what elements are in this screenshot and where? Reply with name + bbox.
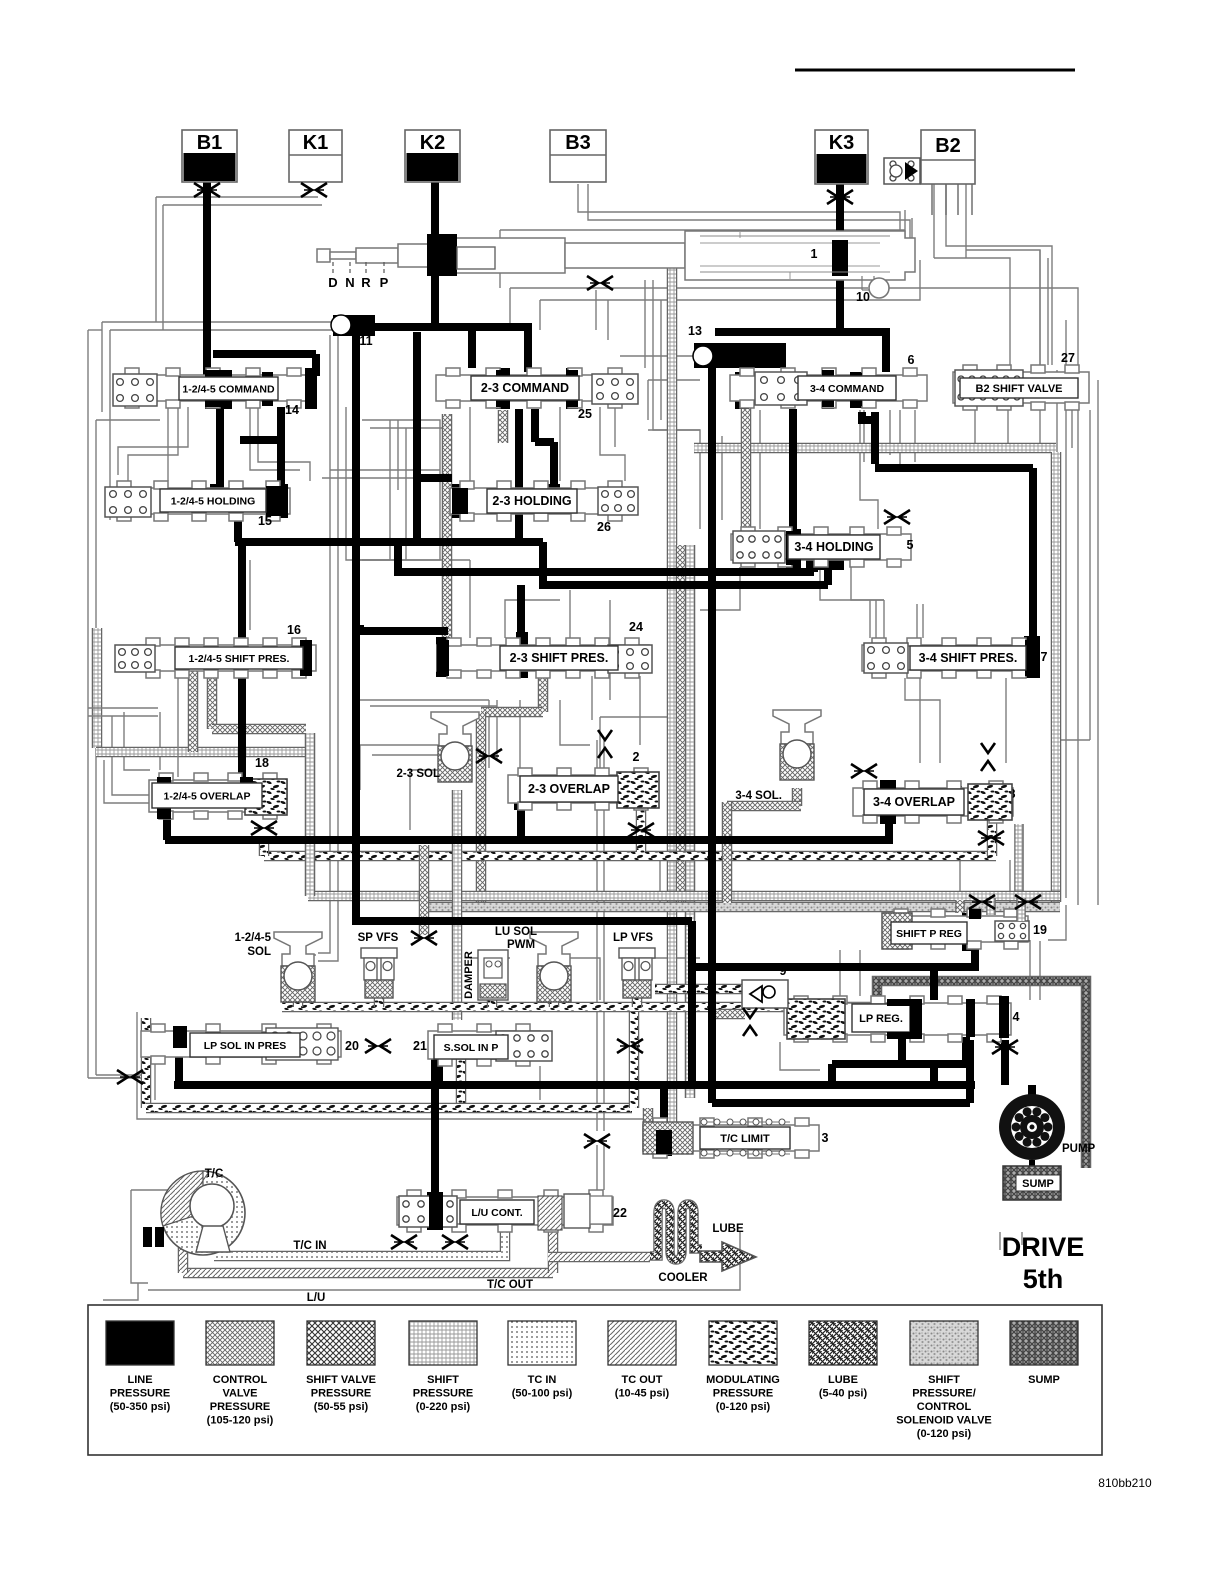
svg-text:13: 13 (688, 324, 702, 338)
svg-text:(10-45 psi): (10-45 psi) (615, 1388, 670, 1400)
conduit dotted vertical x690 (685, 545, 696, 1098)
valve symbol 20 (365, 1039, 391, 1053)
s.sol bottom black stub (431, 1042, 443, 1086)
svg-text:(50-100 psi): (50-100 psi) (512, 1388, 573, 1400)
3-4 command to holding (789, 409, 797, 556)
valve symbol under 2 box (628, 823, 654, 837)
svg-text:PRESSURE/: PRESSURE/ (912, 1388, 976, 1400)
valve symbol below K1 (301, 183, 327, 197)
LP VFS (619, 948, 655, 958)
valve S.SOL IN P (21) (428, 1024, 540, 1066)
line pressure K2 drop (431, 180, 439, 250)
valve symbol under overlap (251, 821, 277, 835)
svg-text:(0-220 psi): (0-220 psi) (416, 1401, 471, 1413)
legend swatch 8 (809, 1321, 877, 1365)
trunk B y572 y585 (394, 542, 402, 572)
svg-text:1-2/4-5 SHIFT PRES.: 1-2/4-5 SHIFT PRES. (189, 653, 290, 665)
command to holding verticals left (216, 407, 224, 484)
legend swatch 9 (910, 1321, 978, 1365)
svg-text:2-3 HOLDING: 2-3 HOLDING (492, 494, 571, 508)
svg-text:COOLER: COOLER (658, 1272, 708, 1284)
svg-text:K1: K1 (303, 132, 329, 154)
svg-text:DRIVE: DRIVE (1002, 1232, 1085, 1262)
torque converter T/C (161, 1171, 245, 1255)
long vertical from node 13 (708, 368, 716, 1103)
center vertical main line (352, 335, 360, 925)
svg-text:R: R (361, 275, 371, 290)
clutch B2 (921, 130, 975, 184)
valve 2-3 OVERLAP (2) (508, 768, 658, 810)
svg-text:3: 3 (822, 1131, 829, 1145)
command valve internal blacks left (213, 350, 316, 358)
svg-text:11: 11 (359, 334, 372, 348)
l/u cont drop (431, 1085, 439, 1226)
conduit enclosure bottom-left (141, 1018, 152, 1108)
svg-text:22: 22 (613, 1206, 627, 1220)
svg-text:SOLENOID VALVE: SOLENOID VALVE (896, 1415, 992, 1427)
svg-text:2-3 SHIFT PRES.: 2-3 SHIFT PRES. (510, 651, 609, 665)
svg-text:N: N (345, 275, 354, 290)
svg-text:K2: K2 (420, 132, 446, 154)
clutch K1 (289, 130, 342, 182)
svg-text:PRESSURE: PRESSURE (311, 1388, 372, 1400)
svg-text:K3: K3 (829, 132, 855, 154)
valve 1-2/4-5 HOLDING (15) (107, 481, 290, 521)
svg-text:25: 25 (578, 407, 592, 421)
line pressure B1 drop (203, 178, 211, 376)
legend swatch 4 (409, 1321, 477, 1365)
conduit crosshatch vertical x677 (676, 545, 687, 906)
conduit 3-4 sol stem (792, 788, 803, 806)
conduit check valve 9 band (655, 984, 786, 995)
conduit left dotted rail (92, 628, 103, 748)
svg-text:4: 4 (1013, 1010, 1020, 1024)
valve 1-2/4-5 SHIFT PRES (16) (136, 638, 316, 678)
conduit T/C OUT band (183, 1268, 553, 1279)
svg-text:L/U: L/U (307, 1292, 326, 1304)
svg-text:SUMP: SUMP (1022, 1178, 1054, 1190)
valve 3-4 HOLDING (5) (731, 527, 911, 567)
conduit sump path LP REG to SUMP (877, 981, 1086, 1168)
bottom trunks (174, 1081, 975, 1089)
svg-text:L/U CONT.: L/U CONT. (471, 1207, 522, 1219)
valve symbol lp vfs bottom (617, 1039, 643, 1053)
conduit stubs above shift p reg (986, 898, 996, 915)
svg-text:PRESSURE: PRESSURE (413, 1388, 474, 1400)
legend box (88, 1305, 1102, 1455)
svg-text:(5-40 psi): (5-40 psi) (819, 1388, 868, 1400)
legend swatch 10 (1010, 1321, 1078, 1365)
svg-text:2-3 SOL: 2-3 SOL (397, 768, 440, 780)
svg-text:SP VFS: SP VFS (358, 932, 399, 944)
svg-text:27: 27 (1061, 351, 1075, 365)
svg-text:LP VFS: LP VFS (613, 932, 653, 944)
svg-text:LUBE: LUBE (712, 1223, 744, 1235)
valve 2-3 COMMAND (25) (436, 368, 632, 408)
pump feed (1028, 1085, 1036, 1096)
valve symbol left of t/c limit (584, 1134, 610, 1148)
svg-text:PWM: PWM (507, 939, 535, 951)
DAMPER (478, 950, 508, 1000)
pump (999, 1094, 1065, 1160)
svg-text:LINE: LINE (127, 1374, 152, 1386)
conduit x746 crosshatch (741, 408, 752, 560)
solenoid LU SOL PWM (530, 932, 578, 966)
valve B2 SHIFT VALVE (27) (953, 365, 1089, 410)
trunk y921 to shift p reg (356, 917, 692, 925)
legend swatch 5 (508, 1321, 576, 1365)
svg-text:VALVE: VALVE (222, 1388, 257, 1400)
svg-text:3-4 SHIFT PRES.: 3-4 SHIFT PRES. (919, 651, 1018, 665)
clutch B1 (182, 130, 237, 182)
svg-text:7: 7 (1041, 650, 1048, 664)
conduit dotted band y896 (308, 891, 1060, 902)
2-3 holding to 2-3 shift pres (356, 627, 448, 635)
conduit dotted band y448 + right vertical (694, 443, 1056, 454)
shift p reg right black (962, 913, 979, 951)
valve symbol below B1 (194, 183, 220, 197)
valve symbols near 19 (969, 895, 995, 909)
valve 1-2/4-5 COMMAND (14) (115, 368, 311, 408)
legend swatch 2 (206, 1321, 274, 1365)
top rule line (795, 69, 1075, 72)
vent above 2-3 overlap (598, 730, 612, 758)
legend swatch 7 (709, 1321, 777, 1365)
svg-text:19: 19 (1033, 923, 1047, 937)
svg-text:S.SOL IN P: S.SOL IN P (444, 1042, 499, 1054)
svg-text:3-4 SOL.: 3-4 SOL. (735, 790, 782, 802)
svg-text:1-2/4-5: 1-2/4-5 (235, 932, 272, 944)
svg-text:1: 1 (811, 247, 818, 261)
legend swatch 6 (608, 1321, 676, 1365)
svg-text:(50-350 psi): (50-350 psi) (110, 1401, 171, 1413)
D N R P labels (332, 262, 334, 274)
sump box (1003, 1166, 1061, 1200)
valve 2-3 SHIFT PRES (24) (437, 638, 649, 678)
legend swatch 3 (307, 1321, 375, 1365)
conduit solenoid supply band (282, 1002, 873, 1013)
valve 3-4 SHIFT PRES (7) (862, 638, 1036, 678)
3-4 command blacks (735, 372, 749, 409)
svg-text:T/C IN: T/C IN (293, 1240, 326, 1252)
svg-text:(0-120 psi): (0-120 psi) (917, 1428, 972, 1440)
lp reg bottom drops (898, 1037, 906, 1064)
valve symbol right of LP REG (992, 1040, 1018, 1054)
svg-text:TC IN: TC IN (528, 1374, 557, 1386)
valve symbol below K3 (827, 190, 853, 204)
valve SHIFT P REG (19) (884, 909, 1028, 949)
2-3 overlap bottom stub (517, 806, 525, 844)
pressure switch left of B2 (884, 158, 920, 184)
svg-text:B2 SHIFT VALVE: B2 SHIFT VALVE (976, 383, 1063, 395)
conduit T/C IN band (214, 1232, 505, 1256)
svg-text:SOL: SOL (247, 946, 271, 958)
svg-text:21: 21 (413, 1039, 427, 1053)
svg-text:LU SOL: LU SOL (495, 926, 537, 938)
svg-text:9: 9 (780, 964, 787, 978)
svg-text:LP REG.: LP REG. (859, 1013, 903, 1025)
solenoid 2-3 SOL (431, 712, 479, 746)
svg-text:PRESSURE: PRESSURE (210, 1401, 271, 1413)
line pressure K3 drop (836, 180, 844, 336)
conduit T/C limit tail (643, 1108, 654, 1125)
conduit dotted center vertical (667, 262, 678, 1125)
svg-text:5: 5 (907, 538, 914, 552)
svg-text:PUMP: PUMP (1062, 1143, 1096, 1155)
lp reg blacks (930, 967, 938, 1000)
valve 3-4 COMMAND (6) (730, 368, 927, 408)
svg-text:16: 16 (287, 623, 301, 637)
svg-text:SUMP: SUMP (1028, 1374, 1060, 1386)
svg-text:T/C OUT: T/C OUT (487, 1279, 533, 1291)
svg-text:MODULATING: MODULATING (706, 1374, 780, 1386)
svg-text:SHIFT VALVE: SHIFT VALVE (306, 1374, 376, 1386)
svg-text:3-4 HOLDING: 3-4 HOLDING (794, 540, 873, 554)
t/c limit drop (660, 1085, 668, 1134)
conduit 2-3 sol stem (452, 790, 463, 1020)
trunk y840 (165, 836, 893, 844)
svg-text:1-2/4-5 OVERLAP: 1-2/4-5 OVERLAP (164, 791, 251, 803)
node 11 junction (352, 323, 532, 331)
valve symbol left of 3-4 overlap (851, 764, 877, 778)
svg-text:T/C LIMIT: T/C LIMIT (720, 1133, 770, 1145)
3-4 right trunk down to 3-4 shift pres (871, 412, 879, 464)
svg-text:CONTROL: CONTROL (917, 1401, 972, 1413)
manual valve spool 1 (317, 231, 915, 280)
node 13 junction (715, 328, 890, 336)
svg-text:B3: B3 (565, 132, 591, 154)
cooler serpentine coil (650, 1204, 702, 1260)
valve LP SOL IN PRES (20) (141, 1024, 341, 1064)
2-3 shift pres left feed (356, 625, 364, 631)
vent above 3-4 overlap (981, 743, 995, 771)
3-4 overlap right black small (950, 786, 962, 816)
svg-text:(0-120 psi): (0-120 psi) (716, 1401, 771, 1413)
svg-text:B1: B1 (197, 132, 223, 154)
solenoid 3-4 SOL (773, 710, 821, 744)
svg-text:D: D (328, 275, 337, 290)
svg-text:14: 14 (285, 403, 299, 417)
conduit speckle band y906 (424, 902, 1060, 913)
svg-text:TC OUT: TC OUT (622, 1374, 663, 1386)
svg-text:6: 6 (908, 353, 915, 367)
svg-text:PRESSURE: PRESSURE (713, 1388, 774, 1400)
2-3 command blacks (496, 368, 510, 409)
solenoid 1-2/4-5 SOL (274, 932, 322, 966)
svg-text:P: P (380, 275, 389, 290)
valve 2-3 HOLDING (26) (450, 481, 632, 521)
lube arrow (700, 1242, 756, 1271)
clutch K3 (815, 130, 868, 184)
svg-text:15: 15 (258, 514, 272, 528)
valve symbol right of 2-3 holding (884, 510, 910, 524)
svg-text:2: 2 (633, 750, 640, 764)
svg-text:5th: 5th (1023, 1264, 1064, 1294)
trunk A y542 (234, 516, 242, 542)
vertical to 1-2/4-5 overlap (238, 542, 246, 780)
svg-text:PRESSURE: PRESSURE (110, 1388, 171, 1400)
svg-text:DAMPER: DAMPER (463, 951, 475, 999)
valve symbol under spool (587, 276, 613, 290)
SP VFS (361, 948, 397, 958)
wire gray network (156, 196, 318, 198)
svg-text:(50-55 psi): (50-55 psi) (314, 1401, 369, 1413)
wire gray extra density (644, 280, 646, 368)
svg-text:(105-120 psi): (105-120 psi) (207, 1415, 274, 1427)
clutch K2 (405, 130, 460, 182)
conduit sp vfs feed (419, 845, 430, 935)
svg-text:SHIFT: SHIFT (928, 1374, 960, 1386)
svg-text:LUBE: LUBE (828, 1374, 858, 1386)
valve symbol left edge (117, 1070, 143, 1084)
svg-text:3-4 OVERLAP: 3-4 OVERLAP (873, 795, 955, 809)
valve symbol near sp vfs (411, 931, 437, 945)
valve 1-2/4-5 OVERLAP (18) (149, 773, 287, 819)
svg-text:24: 24 (629, 620, 643, 634)
svg-text:CONTROL: CONTROL (213, 1374, 268, 1386)
svg-text:2-3 OVERLAP: 2-3 OVERLAP (528, 782, 610, 796)
check valve 9 (742, 980, 788, 1008)
legend swatch 1 (106, 1321, 174, 1365)
conduit crosshatch vertical x447 (498, 410, 509, 443)
clutch B3 (550, 130, 606, 182)
valve 3-4 OVERLAP (8) (853, 781, 1013, 823)
svg-text:SHIFT: SHIFT (427, 1374, 459, 1386)
svg-text:LP SOL IN PRES: LP SOL IN PRES (204, 1040, 286, 1052)
svg-text:SHIFT P REG: SHIFT P REG (896, 928, 962, 940)
svg-text:1-2/4-5 COMMAND: 1-2/4-5 COMMAND (182, 384, 275, 396)
valve symbol under 3-4 overlap right (978, 831, 1004, 845)
node 10 (869, 278, 889, 298)
svg-text:1-2/4-5 HOLDING: 1-2/4-5 HOLDING (171, 496, 256, 508)
valve LP REG (4) (784, 996, 1011, 1042)
valve symbol left of 2-3 overlap (476, 749, 502, 763)
svg-text:20: 20 (345, 1039, 359, 1053)
svg-text:26: 26 (597, 520, 611, 534)
svg-text:3-4 COMMAND: 3-4 COMMAND (810, 383, 885, 395)
svg-text:2-3 COMMAND: 2-3 COMMAND (481, 381, 569, 395)
svg-text:18: 18 (255, 756, 269, 770)
valve T/C LIMIT (3) (643, 1118, 819, 1158)
svg-text:B2: B2 (935, 135, 961, 157)
valve symbols under l/u cont (391, 1235, 417, 1249)
svg-text:810bb210: 810bb210 (1098, 1476, 1152, 1490)
svg-text:10: 10 (856, 290, 870, 304)
conduit modulating band (264, 851, 996, 862)
valve L/U CONT (22) (397, 1190, 613, 1232)
lp sol left black (173, 1026, 187, 1050)
